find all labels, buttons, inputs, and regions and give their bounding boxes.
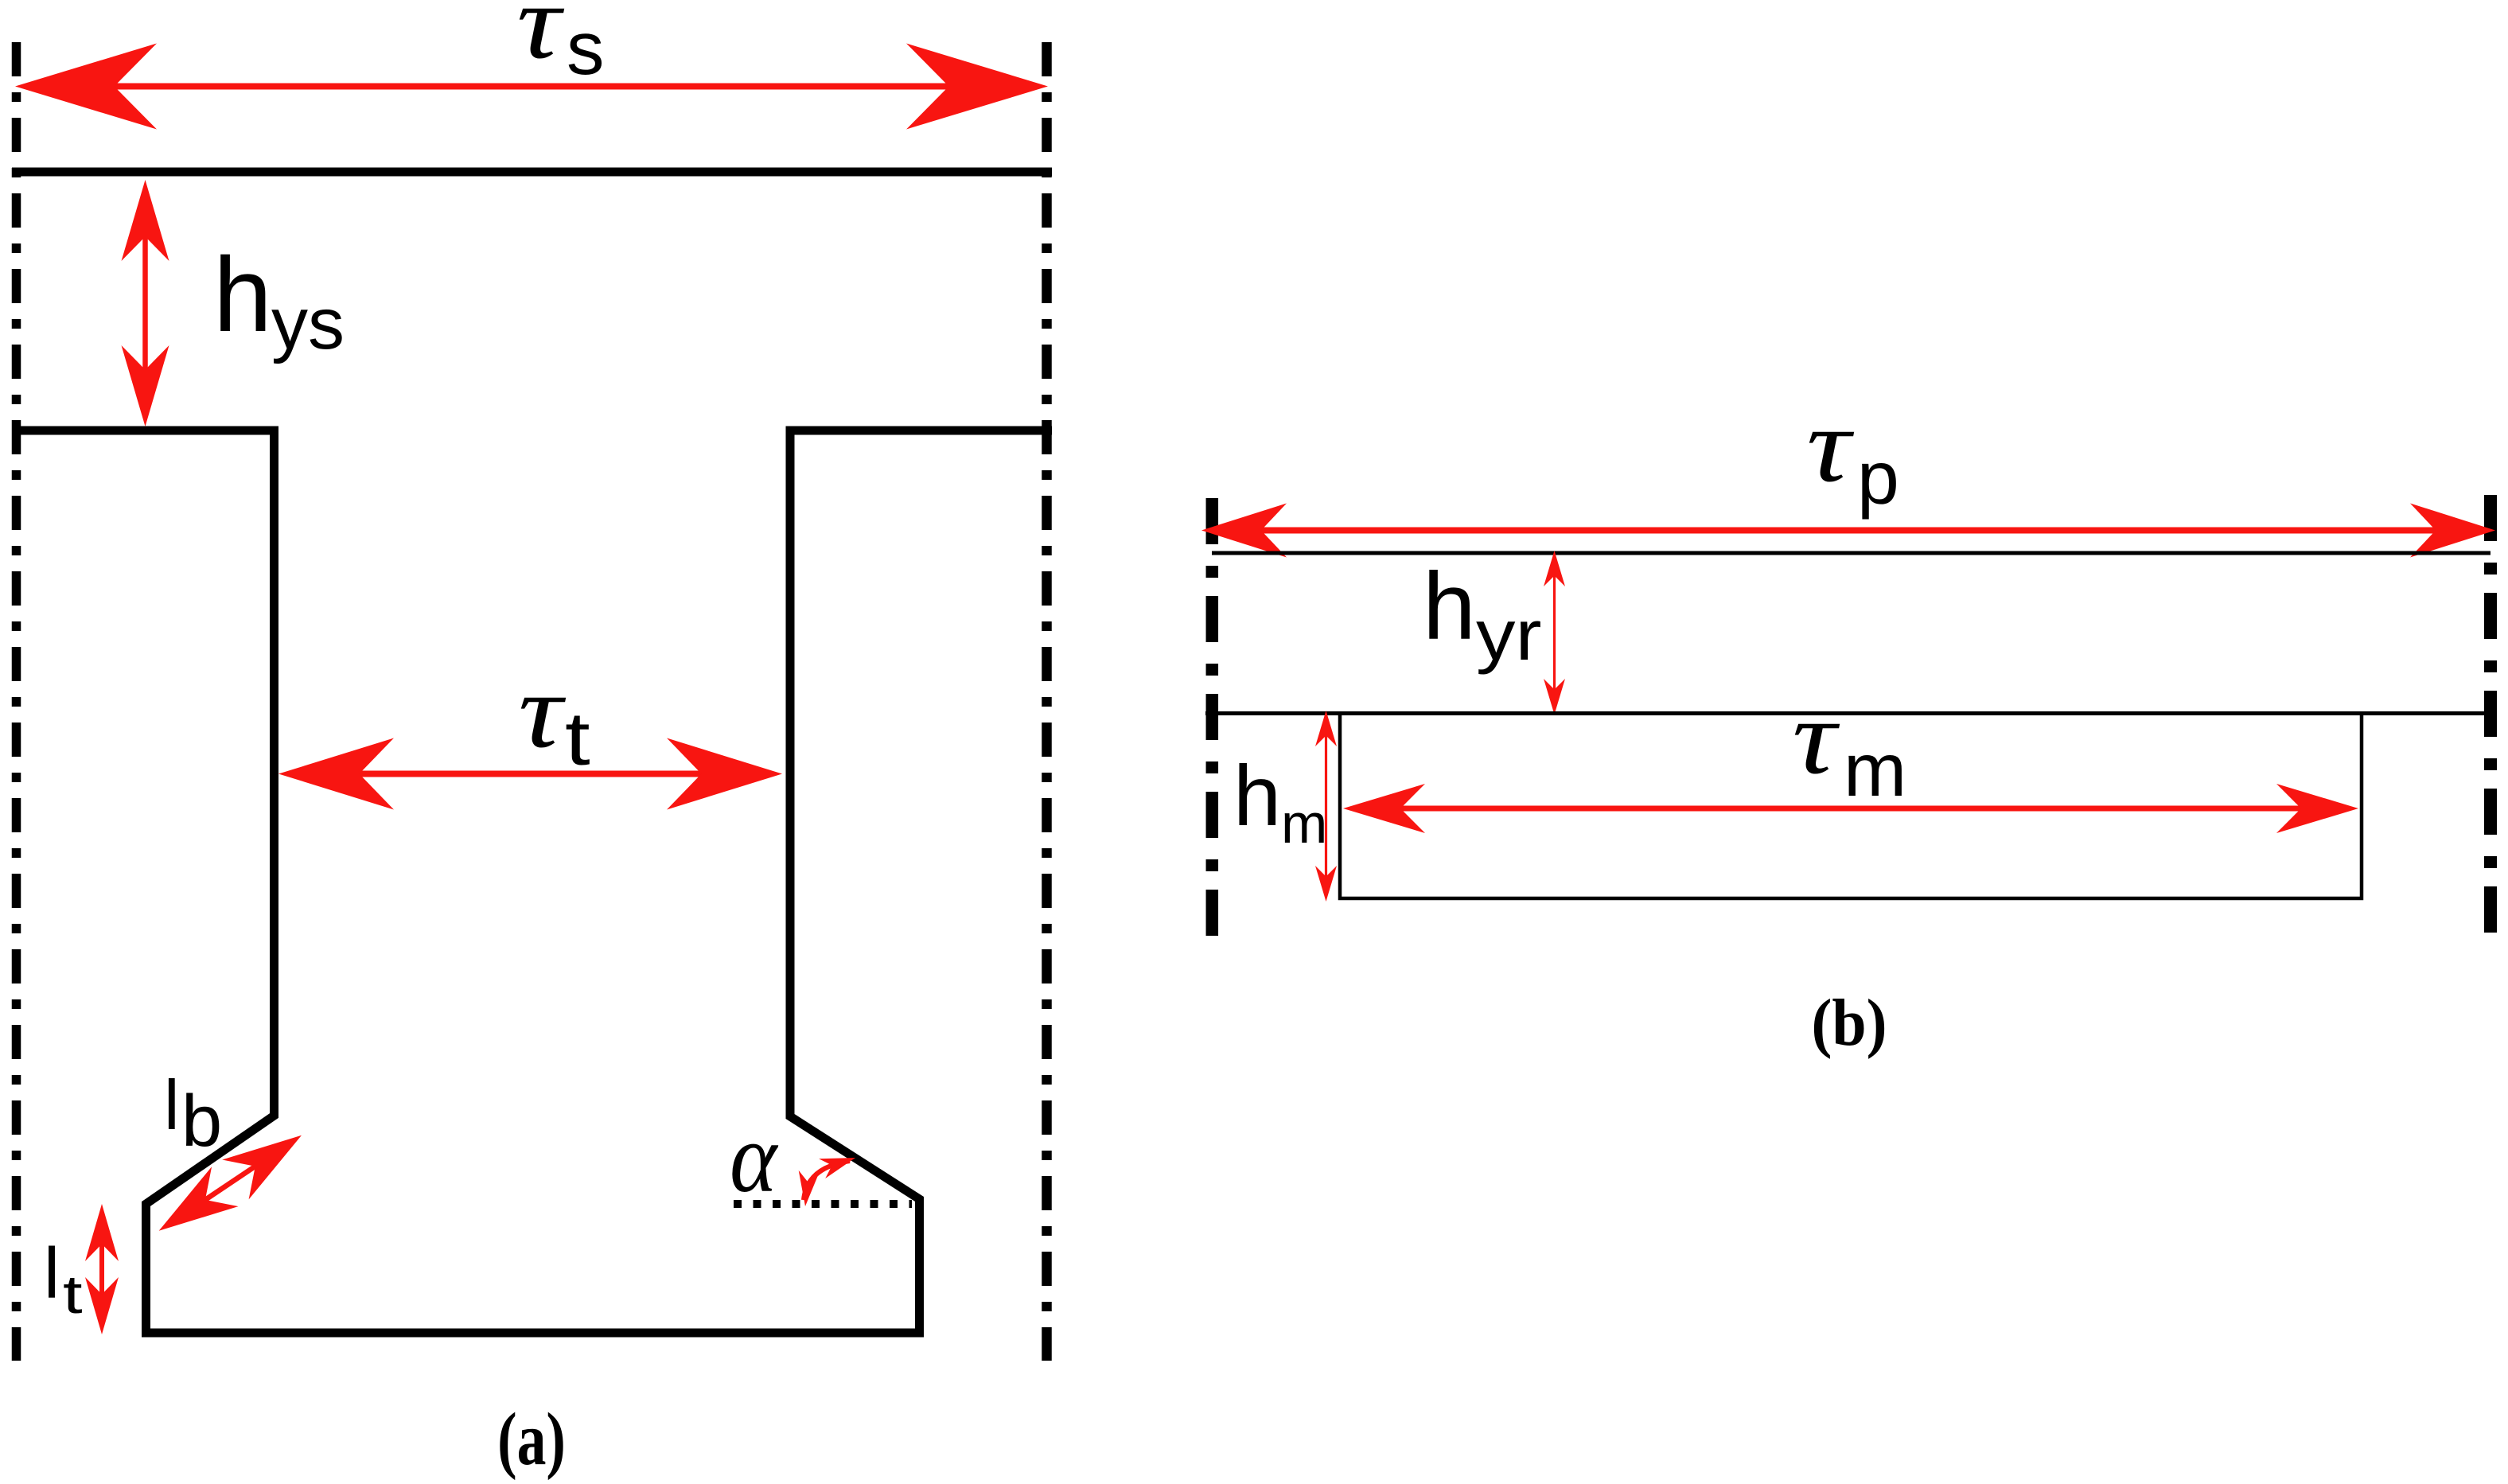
label l_t <box>44 1234 83 1325</box>
dotted horizontal reference line for angle alpha <box>734 1200 912 1208</box>
dimension arrow tau_t (tooth width) <box>278 738 782 810</box>
svg-text:t: t <box>63 1264 83 1325</box>
label h_m <box>1233 747 1327 855</box>
svg-text:t: t <box>565 697 590 781</box>
dimension arrow tau_s (slot pitch) <box>15 44 1048 130</box>
label tau_m <box>1792 678 1906 812</box>
dimension arrow h_m (magnet height) <box>1315 711 1337 902</box>
centerline: left rotor pole axis (dash-dot) <box>1206 498 1219 943</box>
label l_b <box>164 1065 222 1162</box>
svg-text:(b): (b) <box>1811 985 1887 1059</box>
svg-text:τ: τ <box>518 652 567 769</box>
slot bottom line right <box>786 427 1052 435</box>
stator bore line (tooth tip surface) <box>142 1329 924 1338</box>
svg-text:l: l <box>44 1234 60 1314</box>
tooth left flank + bevel + tip edge <box>146 427 275 1330</box>
centerline: right rotor pole axis (dash-dot) <box>2484 495 2497 943</box>
svg-text:τ: τ <box>1792 678 1840 796</box>
rotor yoke top line <box>1212 551 2490 555</box>
label h_yr <box>1423 553 1541 676</box>
label tau_p <box>1806 386 1899 520</box>
svg-text:yr: yr <box>1476 595 1541 676</box>
svg-text:h: h <box>1233 747 1281 843</box>
svg-text:b: b <box>181 1081 222 1162</box>
svg-text:(a): (a) <box>497 1399 566 1482</box>
rotor yoke bottom line <box>1205 711 2490 715</box>
svg-text:l: l <box>164 1065 180 1144</box>
dimension arrow tau_p (pole pitch) <box>1201 504 2495 558</box>
label h_ys <box>213 236 345 364</box>
stator yoke outer line <box>12 168 1052 177</box>
label tau_s <box>516 0 604 91</box>
svg-text:m: m <box>1281 793 1327 855</box>
dimension arrow h_yr (rotor yoke height) <box>1544 551 1565 715</box>
svg-text:h: h <box>213 236 272 354</box>
dimension arrow h_ys (stator yoke height) <box>122 180 169 427</box>
dimension arrow l_b (bevel length) <box>159 1135 302 1231</box>
dimension arrow l_t (tooth tip height) <box>85 1204 119 1334</box>
svg-text:s: s <box>567 6 605 91</box>
permanent magnet outline <box>1340 714 2362 898</box>
svg-text:m: m <box>1844 728 1906 812</box>
svg-text:h: h <box>1423 553 1476 660</box>
svg-text:τ: τ <box>516 0 565 81</box>
centerline: right stator slot axis (dash-dot) <box>1042 42 1052 1361</box>
label tau_t <box>518 652 590 781</box>
centerline: left stator slot axis (dash-dot) <box>12 42 21 1361</box>
curved angle arrow for alpha <box>799 1158 855 1206</box>
slot bottom line left <box>12 427 275 435</box>
tooth right flank + bevel + tip edge <box>790 427 920 1330</box>
svg-text:p: p <box>1857 436 1899 520</box>
dimension arrow tau_m (magnet width) <box>1343 784 2358 833</box>
svg-text:ys: ys <box>271 283 345 364</box>
svg-text:α: α <box>730 1103 779 1213</box>
svg-text:τ: τ <box>1806 386 1855 504</box>
